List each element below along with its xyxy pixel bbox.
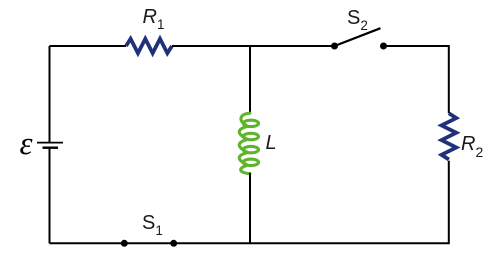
switch S2 blade	[335, 28, 381, 46]
label L	[266, 132, 277, 155]
wire: top middle	[172, 45, 335, 47]
wire: left upper	[49, 46, 51, 143]
label S1	[142, 212, 163, 238]
wire: left lower	[49, 148, 51, 244]
switch S1 right terminal	[170, 240, 177, 247]
wire: middle upper	[249, 46, 251, 113]
battery short plate	[43, 146, 59, 148]
switch S2 right terminal	[380, 43, 387, 50]
label R2	[461, 133, 483, 160]
wire: top right + right down to R2	[384, 46, 449, 113]
switch S1 left terminal	[121, 240, 128, 247]
resistor R1	[126, 39, 172, 53]
label R1	[143, 6, 165, 32]
label S2	[347, 7, 368, 33]
switch S2 left terminal	[331, 43, 338, 50]
battery long plate	[37, 142, 63, 144]
inductor L coil	[239, 113, 258, 173]
resistor R2	[442, 113, 457, 159]
wire: top left horizontal	[50, 45, 127, 47]
wire: right lower + bottom	[50, 161, 449, 244]
wire: middle lower	[249, 173, 251, 243]
label emf	[20, 126, 33, 163]
